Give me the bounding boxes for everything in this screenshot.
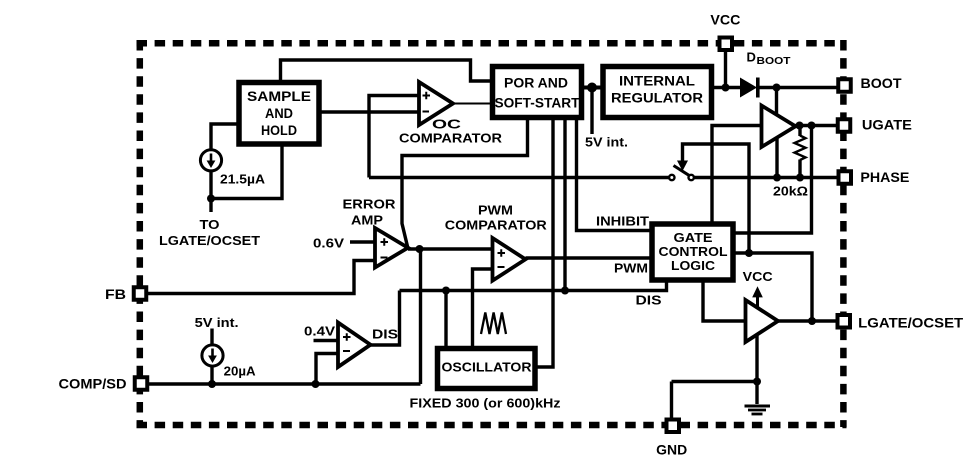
svg-text:COMPARATOR: COMPARATOR bbox=[399, 131, 503, 146]
wire PHASE line left segment bbox=[369, 176, 669, 179]
svg-text:0.4V: 0.4V bbox=[304, 325, 336, 339]
svg-text:VCC: VCC bbox=[710, 13, 740, 28]
pin GND bbox=[667, 420, 680, 433]
VCC arrow for LGATE driver bbox=[752, 286, 763, 307]
svg-text:POR AND: POR AND bbox=[504, 76, 568, 91]
switch control arrow bbox=[677, 144, 749, 253]
node error amp output / COMP bbox=[416, 245, 424, 253]
wire COMP/SD pin line bbox=[149, 382, 421, 385]
wire 0.4V reference to comparator + bbox=[314, 339, 339, 342]
node current source / COMP bbox=[208, 380, 216, 388]
node ground branch bbox=[753, 378, 761, 386]
svg-text:PWM: PWM bbox=[478, 204, 513, 218]
block POR AND SOFT-START bbox=[493, 67, 582, 118]
wire LGATE driver return to ground bbox=[755, 334, 758, 404]
wire UGATE driver output to UGATE pin bbox=[796, 124, 838, 127]
switch arm bbox=[674, 166, 690, 176]
wire UGATE driver bottom to PHASE bbox=[775, 138, 778, 178]
sawtooth waveform bbox=[481, 313, 506, 335]
wire DIS from comparator output bbox=[371, 291, 400, 346]
wire DIS line to gate control logic bbox=[400, 282, 667, 290]
svg-text:PWM: PWM bbox=[614, 262, 648, 276]
svg-text:UGATE: UGATE bbox=[862, 118, 912, 133]
wire DIS to oscillator bbox=[444, 291, 447, 347]
IC boundary dashed border bbox=[137, 40, 847, 427]
wire gate control logic to UGATE driver input bbox=[712, 126, 762, 222]
svg-text:AND: AND bbox=[265, 106, 293, 121]
resistor 20k bottom lead bbox=[798, 160, 801, 178]
op-amp UGATE driver bbox=[762, 106, 796, 148]
svg-text:5V int.: 5V int. bbox=[195, 316, 239, 330]
svg-text:FIXED 300 (or 600)kHz: FIXED 300 (or 600)kHz bbox=[410, 396, 562, 411]
current source 20uA leads bbox=[210, 329, 213, 385]
svg-text:BOOT: BOOT bbox=[757, 56, 791, 67]
wire FB pin to error amp - input bbox=[148, 261, 375, 294]
op-amp 0.4V shutdown comparator bbox=[338, 323, 371, 368]
block OSCILLATOR bbox=[438, 349, 536, 389]
wire diode to BOOT pin bbox=[760, 86, 838, 89]
pin BOOT bbox=[838, 79, 851, 92]
pin LGATE/OCSET bbox=[838, 315, 851, 328]
wire node to sample/hold bottom bbox=[211, 147, 282, 199]
svg-text:LGATE/OCSET: LGATE/OCSET bbox=[858, 316, 964, 331]
svg-text:INHIBIT: INHIBIT bbox=[596, 215, 649, 229]
node BOOT rail bbox=[773, 84, 781, 92]
pin VCC bbox=[720, 38, 733, 51]
op-amp LGATE driver bbox=[746, 300, 779, 342]
svg-text:OSCILLATOR: OSCILLATOR bbox=[442, 360, 533, 375]
svg-text:0.6V: 0.6V bbox=[313, 237, 345, 251]
svg-text:CONTROL: CONTROL bbox=[659, 245, 728, 259]
svg-text:PHASE: PHASE bbox=[860, 170, 909, 185]
pin PHASE bbox=[839, 171, 852, 184]
svg-text:LGATE/OCSET: LGATE/OCSET bbox=[159, 233, 260, 248]
op-amp PWM comparator bbox=[493, 238, 526, 281]
svg-text:COMPARATOR: COMPARATOR bbox=[445, 219, 547, 233]
wire POR to DIS line bbox=[563, 120, 566, 291]
svg-text:HOLD: HOLD bbox=[261, 123, 297, 138]
resistor 20k bbox=[795, 136, 806, 161]
wire COMP sense to 0.4V comparator - bbox=[316, 354, 338, 385]
svg-text:20µA: 20µA bbox=[224, 364, 257, 379]
svg-text:DIS: DIS bbox=[372, 328, 398, 342]
wire PWM comparator - input from oscillator bbox=[473, 269, 493, 346]
node resistor bottom bbox=[796, 174, 804, 182]
diode DBOOT bbox=[740, 78, 760, 98]
wire current source to node / TO LGATE/OCSET stub bbox=[209, 172, 212, 213]
svg-text:5V int.: 5V int. bbox=[585, 136, 628, 150]
wire sample/hold left to current source bbox=[211, 124, 237, 149]
wire POR to oscillator bbox=[538, 120, 554, 367]
wire POR to INTERNAL REGULATOR bbox=[584, 86, 601, 90]
svg-text:SOFT-START: SOFT-START bbox=[495, 96, 581, 111]
pin FB bbox=[134, 287, 147, 300]
svg-text:AMP: AMP bbox=[351, 214, 383, 228]
node UGATE sense bbox=[808, 122, 816, 130]
resistor 20k top lead bbox=[798, 126, 801, 137]
wire sample/hold output to OC comparator - input bbox=[322, 110, 420, 113]
svg-text:DIS: DIS bbox=[636, 294, 662, 308]
svg-text:FB: FB bbox=[105, 287, 126, 302]
svg-text:OC: OC bbox=[432, 117, 462, 132]
node UGATE driver return bbox=[773, 174, 781, 182]
current source 20uA bbox=[202, 345, 223, 366]
wire PWM output to gate control logic bbox=[526, 256, 653, 259]
svg-text:SAMPLE: SAMPLE bbox=[247, 89, 311, 104]
wire gate control logic right to LGATE sense bbox=[735, 253, 812, 321]
node at current source output bbox=[207, 195, 215, 203]
wire PHASE line right segment to PHASE pin bbox=[694, 176, 837, 179]
wire VCC pin to boot diode rail bbox=[724, 51, 727, 88]
ground bbox=[745, 406, 771, 414]
node 0.4V comparator sense bbox=[312, 380, 320, 388]
svg-text:COMP/SD: COMP/SD bbox=[59, 377, 127, 392]
pin UGATE bbox=[838, 119, 851, 132]
wire UGATE sense to gate control logic bbox=[735, 126, 811, 234]
wire regulator output to diode bbox=[712, 86, 741, 89]
wire 5V int. stub bbox=[590, 88, 593, 135]
node LGATE sense bbox=[808, 317, 816, 325]
node DIS/POR bbox=[561, 287, 569, 295]
op-amp OC comparator bbox=[419, 82, 453, 125]
wire OC comparator + input from PHASE line bbox=[369, 96, 419, 178]
node gate logic / switch control bbox=[745, 249, 753, 257]
svg-text:20kΩ: 20kΩ bbox=[773, 184, 808, 199]
svg-text:GATE: GATE bbox=[674, 231, 713, 245]
wire ground branch to GND pin bbox=[672, 382, 758, 420]
op-amp error amp bbox=[375, 228, 408, 268]
svg-text:TO: TO bbox=[200, 217, 220, 232]
wire from SAMPLE AND HOLD top to POR AND SOFT-START bbox=[281, 60, 491, 81]
svg-text:D: D bbox=[747, 50, 756, 65]
svg-text:21.5µA: 21.5µA bbox=[220, 172, 266, 187]
block GATE CONTROL LOGIC bbox=[652, 224, 733, 280]
switch contacts bbox=[669, 166, 694, 181]
pin COMP/SD bbox=[135, 377, 148, 390]
wire gate control logic to LGATE driver input bbox=[703, 280, 746, 321]
wire BOOT rail down to UGATE driver bbox=[775, 88, 778, 116]
node 5V int. bbox=[587, 83, 597, 93]
block INTERNAL REGULATOR bbox=[603, 67, 712, 118]
wire INHIBIT from POR to gate control logic bbox=[577, 120, 650, 231]
node VCC/regulator bbox=[722, 84, 730, 92]
wire 0.6V reference to error amp + bbox=[350, 240, 375, 243]
wire OC comparator output to POR bbox=[453, 103, 490, 105]
block SAMPLE AND HOLD bbox=[239, 83, 319, 145]
svg-text:INTERNAL: INTERNAL bbox=[619, 74, 695, 89]
wire COMP riser bbox=[419, 249, 422, 384]
node UGATE/resistor bbox=[796, 122, 804, 130]
current source 21.5uA bbox=[200, 150, 221, 171]
svg-text:GND: GND bbox=[656, 443, 687, 458]
node DIS/oscillator bbox=[442, 287, 450, 295]
svg-text:ERROR: ERROR bbox=[343, 198, 396, 212]
svg-text:LOGIC: LOGIC bbox=[671, 259, 715, 273]
svg-text:REGULATOR: REGULATOR bbox=[611, 91, 703, 106]
wire LGATE driver output to LGATE pin bbox=[778, 319, 837, 322]
wire error amp output to PWM comparator + bbox=[408, 247, 493, 250]
svg-text:VCC: VCC bbox=[743, 270, 773, 284]
wire POR soft-start clamp to error amp output bbox=[402, 120, 528, 247]
svg-text:BOOT: BOOT bbox=[861, 76, 903, 91]
